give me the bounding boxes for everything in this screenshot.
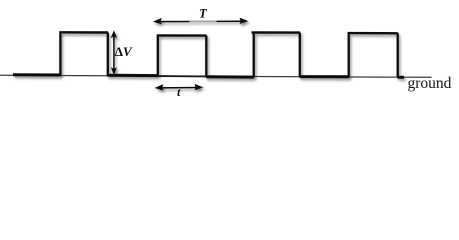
pulse 4 falling edge: [397, 33, 399, 77]
svg-text:T: T: [199, 6, 208, 20]
amplitude arrow dV (vertical double-headed): [111, 30, 117, 75]
pulse 1 falling edge: [107, 33, 109, 77]
pulse-width arrow t (double-headed): [154, 84, 203, 91]
pulse 2 top: [157, 34, 207, 36]
pulse 1 top: [59, 31, 108, 34]
pulse 4 rising edge: [348, 33, 350, 78]
svg-text:ground: ground: [408, 75, 452, 92]
low segment between pulse 3 and pulse 4: [300, 75, 349, 78]
pulse 3 falling edge: [299, 33, 301, 77]
pulse 3 top: [252, 31, 301, 33]
low segment between pulse 1 and pulse 2: [108, 74, 158, 77]
waveform: low segment before pulse 1: [13, 73, 61, 76]
pulse 1 rising edge: [59, 32, 61, 76]
pulse 2 rising edge: [157, 35, 159, 76]
ground reference line (thin): [0, 75, 432, 77]
shadow copies of waveform: [15, 20, 406, 93]
pulse 2 bottom edge: [158, 75, 206, 77]
low segment between pulse 2 and pulse 3: [206, 75, 254, 78]
low segment after pulse 4: [398, 76, 405, 79]
period arrow T (double-headed): [153, 18, 249, 25]
svg-text:ΔV: ΔV: [115, 44, 133, 59]
pulse 4 top: [348, 32, 398, 35]
pulse 2 falling edge: [205, 36, 207, 77]
pulse 3 rising edge: [253, 32, 255, 77]
